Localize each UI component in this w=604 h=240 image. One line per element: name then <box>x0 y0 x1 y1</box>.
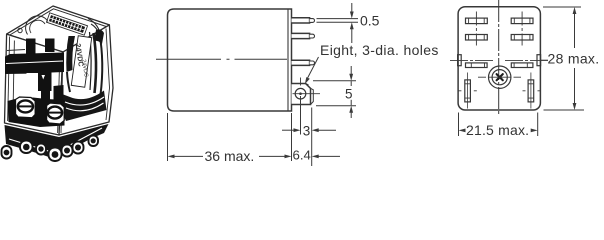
pin 1 thin tip extension lines <box>317 19 359 23</box>
pin 2 <box>292 33 310 38</box>
pin 1 <box>292 18 310 23</box>
white cut lines inside armature <box>6 61 63 74</box>
hole crosshair <box>293 78 321 94</box>
coil wire leads on top <box>88 19 101 39</box>
case side face <box>59 25 113 135</box>
svg-text:21.5 max.: 21.5 max. <box>466 122 529 138</box>
svg-text:Eight, 3-dia. holes: Eight, 3-dia. holes <box>320 42 439 58</box>
screw terminal block left <box>16 97 36 118</box>
armature upper posts <box>26 39 36 59</box>
middle right slot <box>537 55 541 66</box>
coil right bands <box>94 33 97 93</box>
armature lower stem tip <box>41 91 50 105</box>
svg-text:6.4: 6.4 <box>293 148 311 163</box>
coil dark bottom <box>61 91 107 122</box>
screw head right <box>48 107 62 119</box>
dimension 6.4 <box>312 155 340 159</box>
armature horizontal bar <box>5 53 64 92</box>
coil top flange <box>94 29 104 44</box>
top connector block <box>46 13 87 35</box>
svg-text:5: 5 <box>345 87 353 102</box>
ledge line above armature <box>7 50 25 51</box>
middle row centerline <box>450 59 548 61</box>
circle crosshair <box>478 76 521 78</box>
coil left edge dark band <box>66 36 75 72</box>
relay case top face <box>7 6 110 52</box>
dark lower block behind screws <box>8 98 65 128</box>
dimension 0.5 <box>350 3 354 43</box>
relay body side view <box>168 9 292 111</box>
internal mechanism (front face dark parts) <box>5 39 65 128</box>
svg-text:3: 3 <box>303 123 311 138</box>
svg-text:0.5: 0.5 <box>360 13 380 29</box>
side face inner wall line <box>106 29 110 121</box>
bottom view outline <box>458 7 540 110</box>
right contact strip <box>54 85 64 101</box>
svg-text:28 max.: 28 max. <box>548 51 600 67</box>
bottom-right vertical slot <box>528 80 534 102</box>
hole circle <box>295 88 306 99</box>
dimension 21.5 max. <box>459 113 538 137</box>
slot row2 right <box>511 35 533 41</box>
extension lines below body <box>168 96 312 166</box>
white notch in stem <box>42 75 46 80</box>
pin 3 <box>292 60 310 65</box>
center circle with X <box>489 66 511 88</box>
dimension 5 <box>313 66 356 118</box>
middle left slot <box>458 55 541 68</box>
front face inner wall lines <box>8 37 10 122</box>
slot row1 left <box>466 18 534 40</box>
svg-text:36 max.: 36 max. <box>205 148 255 164</box>
coil (right side face) <box>90 29 105 95</box>
inner right edge line <box>287 9 289 111</box>
dimension 36 max. <box>168 155 292 159</box>
screw terminal block right <box>47 103 65 124</box>
slot row1 right <box>511 18 533 24</box>
screw head left <box>18 100 33 112</box>
vertical centerline <box>498 0 500 116</box>
bottom-left vertical slot <box>458 73 540 109</box>
bottom pin loops (with holes) <box>2 136 99 162</box>
slot row2 left <box>466 35 488 41</box>
top face arc detail <box>26 16 48 35</box>
base block (dark) <box>5 124 109 159</box>
hole tab (3-dia hole plate) <box>292 84 311 105</box>
case front face <box>5 34 64 135</box>
column centerlines <box>475 12 477 46</box>
dimension 28 max. <box>541 7 584 110</box>
top face screw hole <box>18 28 22 32</box>
coil label 24VDC <box>71 36 91 87</box>
horizontal centerline <box>156 58 287 60</box>
dimension 3 <box>282 128 336 132</box>
